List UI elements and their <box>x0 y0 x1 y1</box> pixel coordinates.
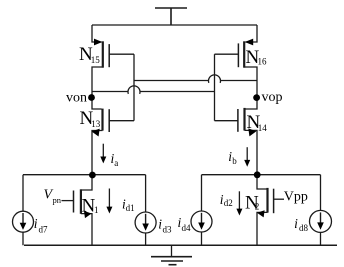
svg-text:pn: pn <box>53 195 62 205</box>
svg-text:d3: d3 <box>163 225 173 235</box>
svg-text:d4: d4 <box>182 223 192 233</box>
svg-text:d2: d2 <box>224 198 233 208</box>
svg-text:15: 15 <box>91 55 101 65</box>
svg-text:a: a <box>114 158 118 168</box>
svg-text:16: 16 <box>258 57 268 67</box>
svg-text:13: 13 <box>91 119 101 129</box>
svg-text:d8: d8 <box>299 223 309 233</box>
svg-text:von: von <box>66 91 87 106</box>
svg-text:i: i <box>294 216 298 231</box>
svg-text:vop: vop <box>262 90 283 105</box>
svg-text:d7: d7 <box>39 224 49 234</box>
svg-text:1: 1 <box>94 205 99 215</box>
svg-text:i: i <box>34 216 38 231</box>
svg-text:b: b <box>232 156 237 166</box>
svg-text:Vpp: Vpp <box>284 190 308 205</box>
svg-text:d1: d1 <box>126 203 135 213</box>
svg-text:2: 2 <box>255 202 259 212</box>
svg-text:14: 14 <box>258 123 268 133</box>
